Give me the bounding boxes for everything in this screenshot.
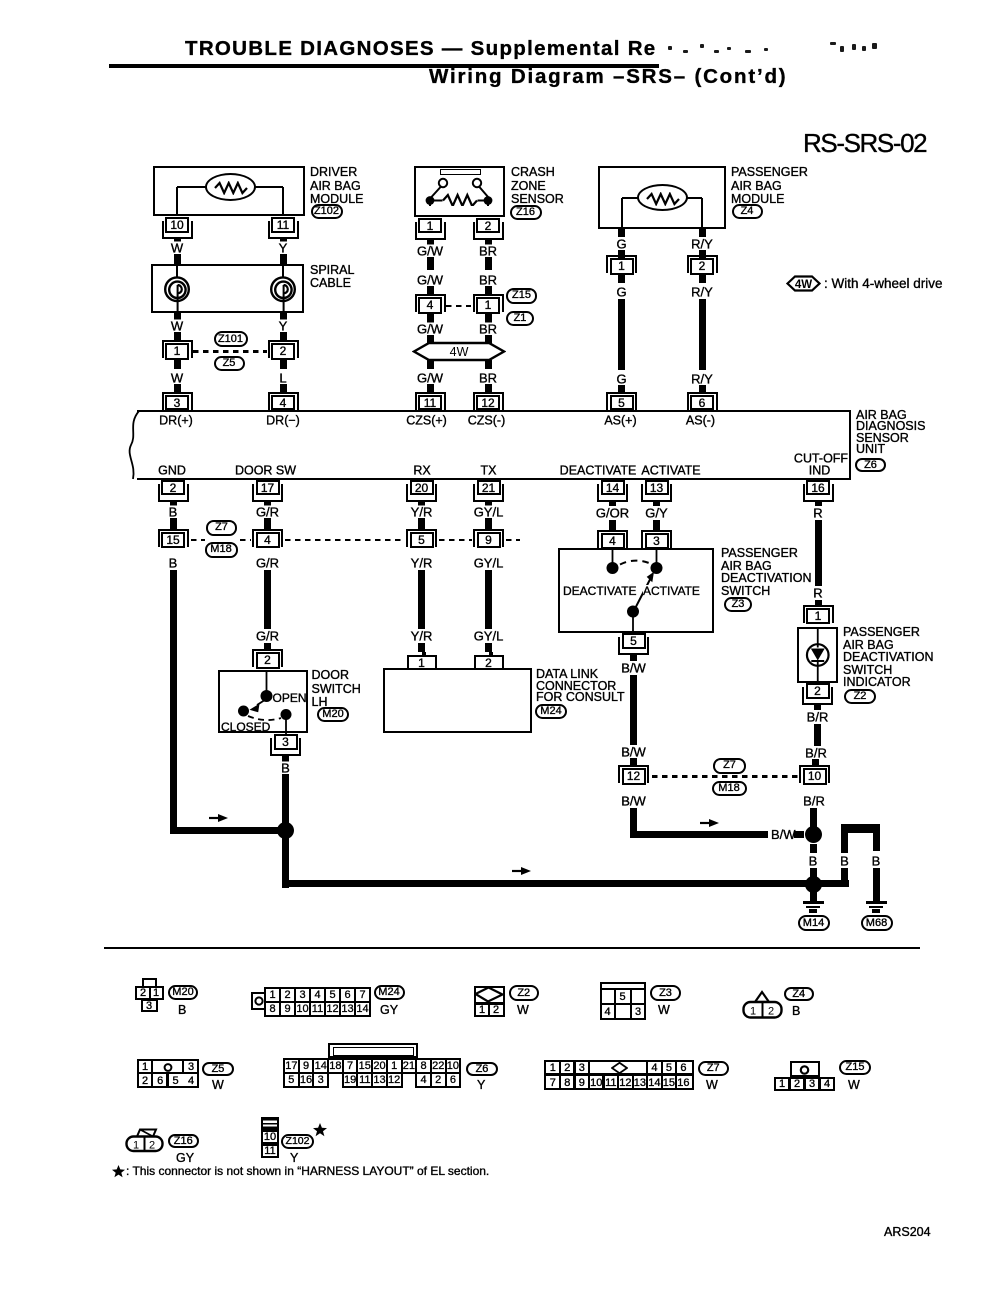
connector oval M20 [317,707,349,722]
connector face oval Z3 [650,985,681,1001]
wire color G/W [415,274,446,287]
passenger air bag deactivation switch box Z3 [558,548,714,633]
crash zone sensor pin 1 [415,222,446,240]
spiral cable box [151,264,304,314]
separator rule above connector table [104,947,920,949]
connector oval Z5 [214,356,245,372]
ground symbol M14 [803,901,824,904]
connector oval Z3 [724,597,752,613]
flow arrow right [512,866,533,876]
wire B stub below pin 2 [170,500,177,507]
wire Y pin11 stub [280,237,287,244]
wire BR segment [485,257,492,271]
connector face Z16 [125,1126,167,1153]
connector mate dashed link 4-1 [446,305,471,307]
deactivation switch pin 4 [597,530,628,548]
wire color G [614,237,629,250]
wire color G/R [253,557,281,570]
connector face M24 grid [264,987,371,1017]
ground oval M14 [798,915,830,931]
wire color GY/L [471,557,506,570]
connector oval M18 lower [712,781,747,797]
crash zone sensor box Z16 [414,166,505,217]
wire G/R long run [264,570,271,629]
wire G below connector 1 [618,275,625,283]
wire BR into 4W option [485,335,492,344]
connector face Z15 color W [848,1078,860,1092]
wire G/W into 4W option [427,335,434,344]
subtitle Wiring Diagram –SRS– (Cont’d) [429,70,787,84]
wire G/W below 4W [427,360,434,369]
connector face Z4 [742,990,784,1019]
wire G/W to band pin 11 [427,384,434,392]
wire G/OR stub below pin 14 [609,500,616,507]
wire R/Y below connector 2 [699,275,706,283]
wire G stub below module [618,229,625,237]
band pin 21 TX [473,484,504,502]
wire B/R down to junction [810,808,817,828]
svg-text:4W: 4W [795,279,812,291]
wire R/Y to band pin 6 [699,385,706,393]
connector face oval M24 [374,985,405,1001]
wire color R/Y [689,286,716,299]
wire G to band pin 5 [618,385,625,393]
svg-text:2: 2 [768,1006,774,1018]
wire B jumper right leg to ground [873,868,880,902]
connector face M24 latch [251,992,266,1010]
door switch CLOSED label [221,721,270,733]
title underline rule [109,64,659,68]
wire color BR [476,244,499,257]
band terminal label IND [806,465,833,478]
wire color B/W [619,662,649,675]
wire color G/W [415,244,446,257]
ground oval M68 [861,915,893,931]
connector face oval Z7 [698,1061,729,1076]
connector oval Z7 [206,520,237,536]
wire squib to R/Y lead [687,197,702,199]
door switch OPEN label [273,692,307,704]
wire squib to pin 10 [177,186,206,188]
wire color R/Y [689,237,716,250]
door switch pin 2 [252,649,283,667]
connector oval M24 [535,704,567,719]
wire BR to band pin 12 [485,384,492,392]
label AIR BAG DIAGNOSIS SENSOR UNIT [856,409,907,423]
wire R long run [815,520,822,587]
wire color W [168,320,185,333]
wire color B/R [804,711,831,724]
wire color R/Y [689,372,716,385]
wire Y to spiral cable [280,254,287,265]
footnote text [112,1165,125,1178]
wire Y/R long run [418,570,425,629]
wire G/R to connector 4 [264,518,271,530]
wire B/W run [630,675,637,746]
label DRIVER AIR BAG MODULE [310,166,357,180]
connector face Z3 [600,982,646,1020]
4W legend hexagon [786,275,821,292]
connector face Z7 color W [706,1078,718,1092]
wire B/W horizontal to junction [630,831,768,838]
wire color G [614,286,629,299]
drawing number ARS204 [884,1226,931,1240]
wire B/R to connector 10 [812,759,819,767]
passenger air bag module box Z4 [598,166,726,229]
wire color G/R [253,630,281,643]
connector face M24 color GY [380,1003,398,1017]
wire color G/Y [643,507,670,520]
driver air bag module box Z102 [153,166,306,216]
band terminal label DOOR SW [232,464,298,477]
band terminal label CZS(+) [404,414,450,427]
dashed link 12 to 10 [652,775,798,777]
wire BR to connector 1 [485,286,492,295]
wire color BR [476,323,499,336]
data link connector box M24 [383,668,532,733]
wire R to connector 1 [815,600,822,607]
band terminal label ACTIVATE [639,464,703,477]
wire B/R run [814,724,821,746]
wire color Y/R [408,506,435,519]
inline connector pin 1 (Z101/Z5) [162,340,193,358]
wire color B/R [803,746,830,759]
label DATA LINK CONNECTOR FOR CONSULT [536,668,598,682]
wire color G/R [253,506,281,519]
connector face oval M20 [168,985,198,1001]
label SPIRAL CABLE [310,264,354,278]
connector face Z102 color Y [290,1151,298,1165]
connector oval M18 [205,542,238,558]
connector face Z3 color W [658,1003,670,1017]
door switch contacts and arrow [218,670,309,734]
wire W to band pin 3 [174,384,181,392]
wire B stub below junction [810,844,817,853]
wire color B [869,854,883,867]
connector face Z5 color W [212,1078,224,1092]
driver air bag module squib ellipse [205,173,256,201]
wire color L [277,372,289,385]
inline connector pin 12 (Z7/M18) [618,765,649,783]
data link connector pin 1 [422,652,426,670]
label PASSENGER AIR BAG DEACTIVATION SWITCH [721,547,798,561]
connector face Z16 color GY [176,1151,194,1165]
4W with 4-wheel drive option hexagon [412,341,506,362]
wire color R [811,587,825,600]
band terminal label CUT-OFF [791,452,850,465]
connector oval Z101 [214,331,248,347]
svg-text:4W: 4W [450,345,469,359]
wire color B/W [619,745,649,758]
flow arrow right [700,818,721,828]
wire color B [279,761,293,774]
wire B/W stub to junction [794,831,805,838]
wire color B [166,506,180,519]
inline connector pin 15 (Z7/M18) [158,529,189,547]
connector oval Z15 [506,288,537,304]
wire squib to pin 11 [255,186,283,188]
wire Y/R to DLC pin 1 [418,643,425,653]
dashed link right of 9 [506,539,521,541]
band terminal label AS(+) [602,414,639,427]
wire color GY/L [471,506,506,519]
wire B jumper right leg upper [873,829,880,852]
inline connector pin 5 (Z7/M18) [406,529,437,547]
wire G/R to door switch pin 2 [264,643,271,650]
wire B jumper left leg upper [841,829,848,853]
wire color B/R [801,795,828,808]
inline connector pin 1 (Z15/Z1) [473,294,504,312]
wire G to connector 1 [618,250,625,259]
wire color G [614,372,629,385]
door switch box M20 [218,670,309,734]
wire L to band pin 4 [280,384,287,392]
wire G/OR to switch pin 4 [609,520,616,531]
wire color B/W inline text [770,828,797,841]
flow arrow right [209,813,230,823]
driver module pin 10 [162,221,193,239]
junction dot B ground bus [805,876,822,893]
svg-text:2: 2 [149,1140,155,1152]
connector face oval Z6 [466,1062,498,1077]
wire Y below spiral cable [280,313,287,320]
wire R/Y to connector 2 [699,250,706,259]
wire G/W segment [427,257,434,271]
wire R/Y long run [699,299,706,371]
connector face oval Z16 [168,1134,200,1149]
wire color Y/R [408,557,435,570]
band pin 13 ACTIVATE [641,484,672,502]
inline connector pin 2 (passenger) [687,255,718,273]
connector face Z15 [790,1061,821,1077]
connector face Z2 [474,986,505,1017]
wire G/Y to switch pin 3 [653,520,660,531]
wire B/W to connector 12 [630,758,637,767]
connector mate dashed link 1-2 [193,350,267,352]
wire B/W stub below pin 5 [630,655,637,661]
band pin 5 AS(+) [606,392,637,410]
wire BR below connector 1 [485,314,492,323]
band pin 16 CUT-OFF IND [803,484,834,502]
wire B stub below pin 3 [282,756,289,763]
wire W pin10 stub [174,237,181,244]
driver squib resistor zigzag [207,181,255,195]
wire color Y/R [408,630,435,643]
band pin 2 GND [158,484,189,502]
connector face Z102 [261,1117,279,1131]
passenger air bag deactivation switch indicator box Z2 [797,627,839,684]
wire Y/R stub below pin 20 [418,500,425,507]
wire GY/L to DLC pin 2 [485,643,492,653]
wire color G/W [415,372,446,385]
wire B horizontal to junction [170,827,283,834]
wire B/R stub below pin 2 [814,705,821,711]
wire B jumper top bar [841,824,880,833]
band pin 20 RX [406,484,437,502]
junction dot B/W B/R [805,826,822,843]
connector face Z6 grid [283,1058,461,1088]
wire B jumper left leg lower [841,868,848,888]
wire color G/W [415,323,446,336]
connector oval Z1 [506,311,534,327]
label PASSENGER AIR BAG MODULE [731,166,808,180]
air bag diagnosis sensor unit band [137,410,851,480]
connector face Z2 color W [517,1003,529,1017]
deactivation switch DEACTIVATE label [563,585,637,597]
wire color GY/L [471,630,506,643]
band pin 4 DR(−) [268,392,299,410]
wire BR stub below CZS pin2 [485,238,492,245]
indicator pin 2 [802,687,833,705]
wire G/W to connector 4 [427,286,434,295]
connector oval Z16 top [510,205,542,220]
wire G long run [618,299,625,371]
wire G/W below connector 4 [427,314,434,323]
wire color B/W [619,795,649,808]
wire B bottom long run left part [282,880,849,887]
wire Y/R to connector 5 [418,518,425,530]
band torn left edge [120,406,146,484]
wire color B [838,854,852,867]
wire color Y [276,320,290,333]
dashed link 15 to Z7 oval [191,539,206,541]
inline connector pin 4 (Z7/M18) [252,529,283,547]
wire W below connector 1 [174,360,181,370]
band terminal label RX [411,464,433,477]
connector oval Z6 [855,458,886,473]
wire color W [168,242,185,255]
inline connector pin 9 (Z7/M18) [473,529,504,547]
inline connector pin 10 (Z7/M18) [799,765,830,783]
label CRASH ZONE SENSOR [511,166,555,180]
deactivation switch ACTIVATE label [643,585,700,597]
band terminal label CZS(−) [465,414,508,427]
connector face oval Z5 [202,1062,234,1077]
connector face oval Z15 [839,1060,871,1076]
wire W to spiral cable [174,254,181,265]
junction dot B wires [277,822,294,839]
dashed link Z7 to 4 [240,539,251,541]
band pin 17 DOOR SW [252,484,283,502]
connector oval Z102 [311,204,343,219]
connector face Z7 diamond [611,1062,628,1074]
crash zone sensor pin 2 [473,222,504,240]
connector face Z4 color B [792,1004,800,1018]
diagram code RS-SRS-02 [803,137,926,151]
svg-text:1: 1 [750,1006,756,1018]
wire color BR [476,274,499,287]
dashed link 4 to 5 [285,539,405,541]
wire B to lower junction [810,868,817,877]
wire B/W down to corner [630,808,637,838]
connector face Z6 color Y [477,1078,485,1092]
wire Y to connector 2 [280,332,287,341]
wire GY/L long run [485,570,492,629]
band terminal label GND [156,464,189,477]
wire B bottom long run [282,880,813,887]
dashed link 5 to 9 [439,539,472,541]
wire color Y [276,242,290,255]
wire W below spiral cable [174,313,181,320]
connector face Z5 [137,1059,199,1088]
title TROUBLE DIAGNOSES — Supplemental Re (partially faded) [185,42,657,56]
driver module pin 11 [268,221,299,239]
faded title remnants [668,46,672,50]
indicator LED symbol [797,627,839,684]
spiral symbol left [160,264,194,314]
connector oval Z2 [844,689,876,704]
deactivation switch pin 3 [641,530,672,548]
wire BR below 4W [485,360,492,369]
label PASSENGER AIR BAG DEACTIVATION SWITCH INDICATOR [843,626,920,640]
passenger air bag module squib ellipse [637,184,688,211]
wire G/W stub below CZS pin1 [427,238,434,245]
connector face oval Z102 [281,1134,314,1149]
spiral symbol right [266,264,300,314]
band pin 14 DEACTIVATE [597,484,628,502]
band terminal label DR(−) [264,414,303,427]
data link connector pin 2 [489,652,493,670]
connector face M20 color B [178,1003,186,1017]
wire R/Y stub below module [699,229,706,237]
wire B to connector 15 [170,518,177,530]
wire G/R stub below pin 17 [264,500,271,507]
band pin 11 CZS(+) [415,392,446,410]
connector face M20 [142,978,157,988]
band terminal label DEACTIVATE [557,464,639,477]
ground symbol M68 [866,901,887,904]
connector face oval Z4 [784,987,815,1002]
wire L below connector 2 [280,360,287,370]
footnote star marker [313,1123,327,1137]
inline connector pin 2 (Z101/Z5) [268,340,299,358]
band terminal label DR(+) [157,414,196,427]
crash zone sensor top bar [440,169,481,175]
band terminal label AS(−) [683,414,717,427]
band pin 6 AS(−) [687,392,718,410]
wire GY/L to connector 9 [485,518,492,530]
band terminal label TX [478,464,499,477]
passenger squib resistor zigzag [639,192,687,206]
wire color B [806,854,820,867]
wire W to connector 1 [174,332,181,341]
wire squib to G lead [622,197,639,199]
inline connector pin 1 (passenger) [606,255,637,273]
door switch pin 3 [270,738,301,756]
wire R stub below pin 16 [815,500,822,507]
crash zone sensor contact circles and resistor [414,176,505,206]
wire color R [811,507,825,520]
connector face oval Z2 [509,985,540,1001]
indicator pin 1 [803,605,834,623]
connector oval Z4 [732,204,763,219]
band pin 12 CZS(−) [473,392,504,410]
inline connector pin 4 (Z15/Z1) [415,294,446,312]
wire B GND long run down [170,570,177,831]
band pin 3 DR(+) [162,392,193,410]
wire B to ground M14 [810,884,817,901]
wire color BR [476,372,499,385]
wire color W [168,372,185,385]
wire color B [166,557,180,570]
connector face Z7 grid [544,1060,694,1091]
wire G/Y stub below pin 13 [653,500,660,507]
label DOOR SWITCH LH [312,669,350,683]
connector face Z6 tab [328,1043,418,1058]
wire GY/L stub below pin 21 [485,500,492,507]
deactivation switch contacts arrow arc [558,548,714,633]
connector oval Z7 lower [713,758,746,774]
